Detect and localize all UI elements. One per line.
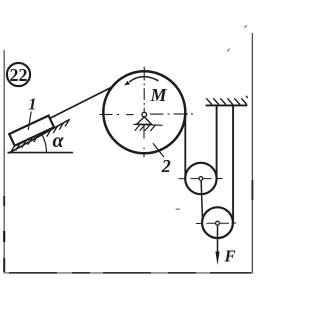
svg-text:1: 1 [28, 95, 36, 114]
svg-text:2: 2 [161, 156, 171, 176]
svg-text:α: α [53, 130, 65, 152]
svg-text:22: 22 [10, 65, 28, 85]
svg-text:M: M [150, 85, 168, 105]
svg-text:F: F [224, 247, 236, 266]
